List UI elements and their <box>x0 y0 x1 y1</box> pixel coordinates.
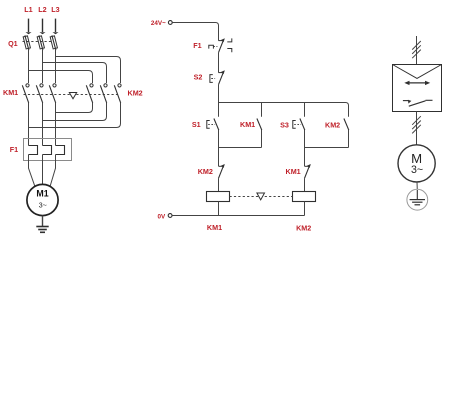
wire L3 to KM1 pole <box>55 50 57 83</box>
wire L3 branch to KM2 pole <box>56 57 121 84</box>
contact KM2 (NO) <box>344 119 349 131</box>
svg-text:24V~: 24V~ <box>151 20 166 27</box>
pushbutton S3 label <box>280 121 289 130</box>
supply 24V~ terminal <box>151 20 172 27</box>
svg-text:F1: F1 <box>10 145 18 154</box>
contactor KM1 pole 3 contact <box>49 80 56 103</box>
contactor KM2 pole 1 contact <box>86 80 93 103</box>
contactor KM1 pole 2 contact <box>36 80 43 103</box>
wire KM2 pole 3 crossover <box>29 103 121 128</box>
thermal relay F1 label <box>10 145 18 154</box>
svg-text:3~: 3~ <box>39 200 47 209</box>
coil coupling dashed + triangle <box>230 193 293 200</box>
coil KM1 name <box>207 223 222 232</box>
wire motor to ground <box>42 216 44 227</box>
breaker Q1 pole 2 <box>37 35 44 50</box>
contact KM1 label <box>240 120 255 129</box>
motor M 3~ <box>398 145 435 182</box>
wire coil KM2 to 0V <box>304 202 306 216</box>
wire KM1 contact bottom <box>261 130 263 148</box>
svg-text:KM1: KM1 <box>3 88 18 97</box>
wire S3/KM2 tie <box>305 147 349 149</box>
wire L1 to KM1 pole <box>28 50 30 83</box>
wire F1 to motor phase 2 <box>42 155 44 185</box>
wire F1 to S2 <box>218 53 220 73</box>
pushbutton S2 label <box>194 72 203 81</box>
wire L1 branch to KM2 pole <box>29 71 93 84</box>
interlock KM1 label <box>286 167 301 176</box>
svg-text:S3: S3 <box>280 121 289 130</box>
wire S1/KM1 tie <box>219 147 262 149</box>
wire S2 to branch node <box>218 85 220 103</box>
wire KM2 pole 2 crossover <box>43 103 107 121</box>
wire 24V rail <box>172 23 218 41</box>
svg-text:0V: 0V <box>157 213 166 220</box>
interlock contact KM2 (NC) <box>219 164 225 178</box>
pushbutton S3 (NO) <box>293 119 305 131</box>
wire S3 bottom <box>304 130 306 148</box>
wire L2 branch to KM2 pole <box>43 63 107 84</box>
direction arrow <box>404 81 430 85</box>
contactor KM2 pole 2 contact <box>100 80 107 103</box>
svg-text:F1: F1 <box>193 41 201 50</box>
wire L2 to KM1 pole <box>42 50 44 83</box>
protective earth <box>407 189 428 210</box>
wire S1 bottom <box>218 130 220 148</box>
svg-text:KM2: KM2 <box>296 223 311 232</box>
interlock contact KM1 (NC) <box>305 164 311 178</box>
wire motor to earth <box>416 182 418 190</box>
wire box to motor <box>416 112 418 145</box>
wire branch rail <box>219 103 349 117</box>
wire KM1 pole 3 to F1 <box>55 103 57 146</box>
contact KM1 (NO) <box>257 119 262 131</box>
thermal relay F1 element 3 <box>56 146 65 155</box>
breaker Q1 coupling dashed <box>23 41 53 43</box>
motor M1 <box>27 184 58 215</box>
svg-text:KM1: KM1 <box>207 223 222 232</box>
wire KM1 NC to coil <box>304 178 306 191</box>
svg-text:S1: S1 <box>192 120 201 129</box>
svg-text:KM2: KM2 <box>128 88 143 97</box>
thermal relay F1 element 1 <box>29 146 38 155</box>
thermal relay F1 element 2 <box>43 146 52 155</box>
wire to KM1 NC <box>304 148 306 167</box>
contactor KM1 coupling dashed + linkage triangle <box>24 93 119 99</box>
wire KM2 NC to coil <box>218 178 220 191</box>
wire S3 branch drop <box>304 103 306 117</box>
coil KM1 <box>207 192 230 202</box>
limit switch contact <box>403 100 433 106</box>
thermal contact F1 label <box>193 41 201 50</box>
interlock KM2 label <box>198 167 213 176</box>
coil KM2 <box>293 192 316 202</box>
svg-text:S2: S2 <box>194 72 203 81</box>
svg-text:3~: 3~ <box>411 164 423 176</box>
contactor KM1 label <box>3 88 18 97</box>
contactor KM2 label <box>128 88 143 97</box>
wire KM1 branch drop <box>261 103 263 117</box>
svg-text:Q1: Q1 <box>8 39 18 48</box>
contact KM2 label <box>325 121 340 130</box>
thermal contact F1 (NC) <box>209 38 232 52</box>
svg-text:L1: L1 <box>24 5 32 14</box>
terminal L2 <box>38 5 46 34</box>
pushbutton S1 (NO) <box>207 119 219 131</box>
wire 0V rail <box>172 215 304 217</box>
svg-text:L2: L2 <box>38 5 46 14</box>
terminal L1 <box>24 5 32 34</box>
coil KM2 name <box>296 223 311 232</box>
terminal L3 <box>51 5 59 34</box>
ground symbol <box>36 227 48 233</box>
wire KM1 pole 2 to F1 <box>42 103 44 146</box>
wire coil KM1 to 0V <box>218 202 220 216</box>
wire F1 to motor phase 1 <box>29 155 36 188</box>
breaker Q1 label <box>8 39 18 48</box>
cable marks top <box>412 41 421 58</box>
cable marks bottom <box>412 116 421 133</box>
wire S1 drop <box>218 103 220 117</box>
svg-text:M1: M1 <box>36 189 48 199</box>
contactor KM2 pole 3 contact <box>114 80 121 103</box>
wire KM2 pole 1 crossover <box>56 103 93 113</box>
svg-text:L3: L3 <box>51 5 59 14</box>
svg-text:KM2: KM2 <box>325 121 340 130</box>
thermal relay F1 box <box>24 139 72 161</box>
wire drive top <box>416 36 418 65</box>
pushbutton S2 (NC) <box>210 70 225 84</box>
wire to KM2 NC <box>218 148 220 167</box>
wire KM2 contact bottom <box>348 130 350 148</box>
limit switch box <box>393 65 442 112</box>
svg-text:KM1: KM1 <box>240 120 255 129</box>
pushbutton S1 label <box>192 120 201 129</box>
supply 0V terminal <box>157 213 172 220</box>
breaker Q1 pole 1 <box>23 35 30 50</box>
wire F1 to motor phase 3 <box>50 155 56 188</box>
breaker Q1 pole 3 <box>50 35 57 50</box>
wire KM1 pole 1 to F1 <box>28 103 30 146</box>
svg-text:KM2: KM2 <box>198 167 213 176</box>
svg-text:KM1: KM1 <box>286 167 301 176</box>
contactor KM1 pole 1 contact <box>22 80 29 103</box>
